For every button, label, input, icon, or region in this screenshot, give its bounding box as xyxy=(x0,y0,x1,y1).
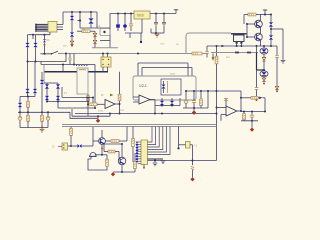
svg-text:7805: 7805 xyxy=(137,14,144,18)
svg-text:4558: 4558 xyxy=(170,74,176,76)
svg-text:IN: IN xyxy=(101,94,104,97)
svg-text:1/2-1: 1/2-1 xyxy=(139,84,147,88)
svg-text:OUT: OUT xyxy=(160,43,165,45)
svg-text:4558: 4558 xyxy=(98,111,104,113)
